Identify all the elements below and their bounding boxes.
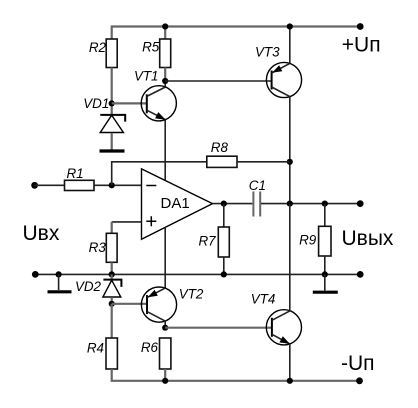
wire R3 bottom to mid rail xyxy=(111,262,113,274)
wire DA1 noninverting input xyxy=(112,221,142,223)
wire VT4 collector riser xyxy=(289,204,291,311)
wire VT4 emitter drop xyxy=(289,344,291,381)
wire negative supply pin to VT2 emitter xyxy=(164,227,166,288)
svg-text:Uвых: Uвых xyxy=(342,227,394,250)
wire input to R1 xyxy=(35,184,65,186)
wire R9 bottom stub xyxy=(324,256,326,274)
wire R1 to DA1 inverting input xyxy=(94,184,142,186)
wire R4 top xyxy=(111,304,113,338)
wire mid rail xyxy=(35,273,360,275)
svg-text:Uвх: Uвх xyxy=(23,222,60,245)
wire C1 to output column xyxy=(261,203,360,205)
svg-text:R9: R9 xyxy=(299,232,317,247)
node VD1 / VT1 base xyxy=(109,100,115,106)
ground right under R9 xyxy=(313,291,338,294)
svg-text:C1: C1 xyxy=(249,178,266,193)
diode VD2 xyxy=(75,274,121,303)
transistor VT3 xyxy=(255,45,302,98)
transistor VT1 xyxy=(134,69,176,121)
svg-text:R4: R4 xyxy=(87,341,104,356)
transistor VT4 xyxy=(251,292,302,345)
svg-text:+Uп: +Uп xyxy=(342,34,381,57)
wire VT1 base xyxy=(112,102,147,104)
wire top rail +Uп xyxy=(112,27,361,40)
node VD2 anode / VT2 base / R4 xyxy=(109,301,115,307)
node VT2 collector / R6 xyxy=(162,325,168,331)
wire VD1 anode to ground xyxy=(111,133,113,150)
node bottom rail / R6 xyxy=(162,378,168,384)
wire R8 to VT3 column xyxy=(237,161,290,163)
node mid rail / R7 xyxy=(221,271,227,277)
wire VT2 base xyxy=(112,303,147,305)
node DA1 output / R7 xyxy=(221,201,227,207)
svg-text:VD1: VD1 xyxy=(83,96,109,111)
resistor R7 xyxy=(198,227,229,257)
ground left xyxy=(48,290,72,293)
svg-text:R3: R3 xyxy=(89,240,107,255)
svg-text:R5: R5 xyxy=(142,39,160,54)
wire DA1 output xyxy=(213,203,253,205)
resistor R6 xyxy=(141,338,171,369)
svg-text:VT1: VT1 xyxy=(134,69,159,84)
node top rail / R5 xyxy=(162,23,168,29)
wire base row VT1 to VT3 xyxy=(165,80,271,82)
wire bottom rail -Uп xyxy=(112,369,360,381)
node bottom rail / VT4 xyxy=(287,378,293,384)
node mid rail / R9 ground xyxy=(322,271,328,277)
node VT1 collector xyxy=(162,78,168,84)
ground under VD1 xyxy=(100,149,125,152)
node +Uп terminal xyxy=(357,23,364,30)
resistor R2 xyxy=(89,39,117,68)
wire right ground stub xyxy=(324,274,326,290)
wire feedback up and right to R8 xyxy=(112,162,207,186)
node mid rail right terminal xyxy=(357,271,364,278)
node R9 top xyxy=(322,201,328,207)
op-amp DA1 xyxy=(142,169,213,239)
wire VT3 collector drop xyxy=(289,97,291,204)
resistor R8 xyxy=(207,140,237,167)
capacitor C1 xyxy=(249,178,266,217)
wire R5 bottom to VT1 collector node xyxy=(164,68,166,82)
node R1 / feedback xyxy=(109,182,115,188)
resistor R1 xyxy=(65,166,95,191)
svg-text:R6: R6 xyxy=(141,340,159,355)
wire R6 bottom stub xyxy=(164,369,166,381)
wire R7 bottom stub xyxy=(223,257,225,274)
svg-text:DA1: DA1 xyxy=(161,195,190,212)
wire R7 top stub xyxy=(223,204,225,227)
node top rail / VT3 xyxy=(287,23,293,29)
transistor VT2 xyxy=(141,287,204,328)
node R8 / VT3 xyxy=(287,159,293,165)
resistor R4 xyxy=(87,338,118,369)
node C1 / VT3-VT4 column xyxy=(287,201,293,207)
wire VT2 collector to VT4 base xyxy=(165,327,272,329)
node left ground junction xyxy=(56,271,62,277)
wire R2 bottom to VD1 node xyxy=(111,68,113,115)
svg-text:VT3: VT3 xyxy=(255,45,280,60)
svg-text:VT4: VT4 xyxy=(251,292,276,307)
diode VD1 xyxy=(83,96,125,132)
wire left ground stub xyxy=(58,274,60,290)
wire down to R3 xyxy=(111,222,113,233)
svg-text:R8: R8 xyxy=(211,140,229,155)
svg-text:R2: R2 xyxy=(89,40,107,55)
wire VT3 emitter riser xyxy=(289,27,291,64)
resistor R5 xyxy=(142,39,171,68)
svg-text:R1: R1 xyxy=(67,166,84,181)
resistor R3 xyxy=(89,233,117,262)
node mid rail left terminal xyxy=(32,271,39,278)
svg-text:R7: R7 xyxy=(198,233,216,248)
svg-text:VT2: VT2 xyxy=(179,287,204,302)
wire positive supply pin from VT1 emitter xyxy=(164,120,166,181)
svg-text:-Uп: -Uп xyxy=(341,352,375,375)
node output terminal xyxy=(357,200,364,207)
node -Uп terminal xyxy=(356,377,363,384)
svg-text:VD2: VD2 xyxy=(75,279,102,294)
node mid rail / R3 / VD2 xyxy=(109,271,115,277)
wire R9 top stub xyxy=(324,204,326,227)
resistor R9 xyxy=(299,226,331,256)
wire R5 top stub xyxy=(164,27,166,40)
node input terminal xyxy=(31,182,38,189)
